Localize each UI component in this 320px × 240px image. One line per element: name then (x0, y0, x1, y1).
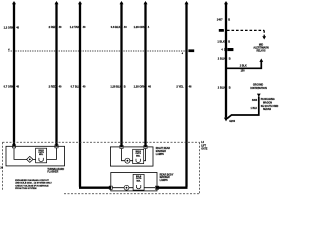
svg-text:S303: S303 (252, 100, 258, 102)
svg-text:B: B (124, 85, 126, 89)
label turn/hazard flasher under box B3 (47, 168, 64, 174)
svg-text:0.7 BLK: 0.7 BLK (71, 85, 81, 89)
svg-text:SEDAN: SEDAN (263, 108, 271, 111)
off-page reference text MID ALERT (253, 44, 269, 52)
svg-text:LAMPS: LAMPS (156, 153, 165, 156)
label row1 wire W4 (111, 25, 127, 29)
label row2 wire W6 (176, 85, 192, 89)
label right of box B1 (156, 147, 171, 156)
svg-text:B: B (228, 39, 230, 43)
wire W7 vertical x=226 (224, 1, 228, 118)
label row1 wire W1 (4, 26, 20, 30)
junction dots on dashed line (13, 50, 15, 52)
svg-text:B: B (229, 86, 231, 90)
harness label LIFT GATE (201, 141, 208, 150)
svg-text:CHECK VOLTAGE IF IN SERVICE: CHECK VOLTAGE IF IN SERVICE (15, 184, 49, 187)
svg-text:1.28 ORN: 1.28 ORN (134, 85, 146, 89)
label row2 wire W3 (71, 85, 86, 89)
inner wire (122, 149, 146, 161)
inner wire (112, 187, 155, 189)
svg-text:150: 150 (241, 70, 246, 73)
pin square right (55, 145, 58, 148)
svg-text:1.28 ORN: 1.28 ORN (134, 25, 146, 29)
note paragraph bottom left (15, 179, 52, 190)
svg-text:S210: S210 (219, 30, 225, 32)
lamp assembly box B1 (center top) (110, 145, 153, 166)
label row1 wire W3 (70, 25, 86, 29)
svg-text:EXPANDED DIAGRAM # CIRCUIT: EXPANDED DIAGRAM # CIRCUIT (15, 179, 49, 182)
svg-text:1407: 1407 (217, 18, 223, 22)
svg-text:2 BLK: 2 BLK (240, 64, 247, 67)
bulb outage module (133, 174, 144, 190)
in-line connector C210 on W7 (221, 48, 234, 52)
svg-text:MARKER: MARKER (156, 150, 166, 153)
svg-text:RIGHT REAR: RIGHT REAR (156, 147, 171, 150)
svg-text:2 YEL: 2 YEL (176, 85, 184, 89)
svg-text:PACKAGING: PACKAGING (261, 98, 275, 101)
wire W5 vertical x=145.5 (144, 1, 148, 147)
label row1 wire W2 (49, 25, 62, 29)
svg-text:SE SOUTH 4WD: SE SOUTH 4WD (261, 105, 279, 108)
label row2 wire W4 (110, 85, 125, 89)
svg-text:2 RED: 2 RED (49, 85, 57, 89)
pin squares on sides (109, 186, 112, 189)
wire W4 vertical x=121.5 (120, 1, 124, 147)
lamp assembly box B2 (center bottom) (109, 173, 158, 191)
svg-text:MARKER: MARKER (160, 176, 170, 179)
svg-text:0.8 BLK: 0.8 BLK (111, 25, 121, 29)
svg-text:C210: C210 (228, 50, 234, 52)
label row2 wire W2 (49, 85, 62, 89)
lamp assembly box B3 (left) (6, 145, 65, 166)
label right of box B2 (160, 173, 174, 182)
pin square left (12, 145, 15, 148)
off-page reference text GROUND DISTRIBUTION (250, 84, 267, 90)
svg-text:DISTRIBUTION: DISTRIBUTION (250, 88, 267, 90)
svg-text:FLASHER: FLASHER (47, 171, 58, 174)
dashed connector line C100 across wires y=51 (8, 48, 195, 55)
svg-text:B: B (229, 57, 231, 61)
svg-text:2 BLK: 2 BLK (218, 86, 226, 90)
svg-text:GROUND: GROUND (253, 84, 264, 86)
harness dashed boundary (3, 142, 200, 193)
svg-text:LAMPS: LAMPS (160, 179, 169, 182)
bulb symbol (27, 156, 33, 162)
wire W1 vertical x=14 (12, 1, 16, 147)
svg-text:1 BLK: 1 BLK (217, 39, 225, 43)
svg-text:B: B (228, 18, 230, 22)
label row2 wire W5 (134, 85, 152, 89)
svg-text:REAR BODY: REAR BODY (160, 173, 174, 176)
wire W2 vertical x=56.5 (55, 1, 59, 147)
svg-text:G200: G200 (229, 120, 236, 123)
svg-text:2 RED: 2 RED (49, 25, 57, 29)
pin squares (120, 145, 123, 148)
svg-text:RELAYS: RELAYS (256, 49, 266, 52)
bulb symbol (124, 185, 129, 190)
svg-text:ALERT/WARN: ALERT/WARN (253, 46, 269, 49)
label 1 BLK on W7 (217, 39, 230, 43)
svg-text:GATE: GATE (201, 148, 208, 151)
wire W3 vertical x=80 with bend right to box2 (78, 1, 111, 188)
bulb outage module (133, 149, 144, 163)
bulb symbol (125, 158, 130, 163)
wire W6 vertical x=186.5 with bend left to box2 right side (156, 1, 189, 188)
svg-text:LIFT: LIFT (201, 145, 206, 147)
label row2 wire W1 (4, 85, 20, 89)
svg-text:AND BULB 1932 - 12 SYSTEM ONLY: AND BULB 1932 - 12 SYSTEM ONLY (15, 182, 52, 185)
svg-text:2 BLK: 2 BLK (218, 57, 226, 61)
svg-text:MID: MID (259, 44, 264, 46)
svg-text:1.2 TAN: 1.2 TAN (70, 25, 80, 29)
harness note text right of ground line (261, 98, 279, 111)
label 2 BLK on W7 lower (218, 86, 231, 90)
branch wire to mid alert module arrow (226, 59, 263, 73)
svg-text:1.2 ORN: 1.2 ORN (4, 26, 14, 30)
connector label box C100 (188, 49, 194, 52)
wire W7 labels: circuit 1407 (217, 18, 230, 22)
bulb outage module (36, 148, 47, 163)
svg-text:WAGON: WAGON (263, 101, 272, 104)
splice label S303 (251, 100, 258, 110)
svg-text:0.7 ORN: 0.7 ORN (4, 85, 14, 89)
label 2 BLK on W7 upper (218, 57, 231, 61)
svg-text:1 BLK: 1 BLK (251, 108, 258, 110)
svg-text:TURN/HAZARD: TURN/HAZARD (47, 168, 64, 171)
svg-text:1.28 BLK: 1.28 BLK (110, 85, 121, 89)
ground G200 (224, 118, 236, 123)
svg-text:FROM THIS SYSTEM: FROM THIS SYSTEM (15, 188, 36, 190)
label row1 wire W5 (134, 25, 150, 29)
svg-text:C100: C100 (189, 51, 195, 53)
inner wire (14, 148, 57, 160)
down arrow from ground distribution (227, 94, 261, 119)
splice S210 with dashed branch to MID alert arrow (219, 29, 266, 40)
